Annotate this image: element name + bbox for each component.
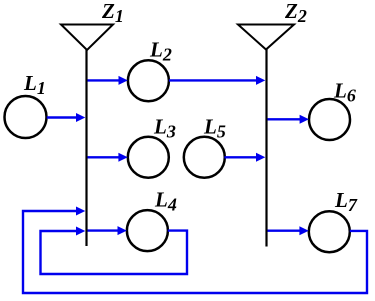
circle L4	[127, 210, 168, 251]
arrow L1 to bus Z1	[47, 113, 86, 122]
arrow L5 to bus Z2	[224, 153, 265, 162]
circle L3	[128, 137, 169, 178]
bus Z2 (vertical line)	[265, 49, 267, 247]
arrow bus Z1 to L4	[88, 226, 127, 235]
bus Z1 (vertical line)	[85, 49, 87, 246]
arrowhead of inner loop at bus Z1	[76, 227, 85, 236]
wire: inner feedback loop from L4 back to bus Z1	[41, 231, 188, 274]
circle L1	[5, 96, 47, 138]
arrow bus Z2 to L7	[268, 226, 309, 235]
wire: outer feedback loop from L7 back to bus Z1	[23, 211, 367, 293]
arrow bus Z2 to L6	[268, 115, 309, 124]
arrow bus Z1 to L2	[88, 76, 128, 85]
antenna/triangle Z1	[61, 25, 113, 51]
arrow bus Z1 to L3	[88, 153, 128, 162]
wire+arrow L2 to bus Z2	[169, 76, 265, 85]
arrowhead of outer loop at bus Z1	[76, 207, 85, 216]
circle L5	[184, 137, 225, 178]
circle L6	[309, 99, 350, 140]
circle L2	[128, 60, 169, 101]
antenna/triangle Z2	[238, 25, 294, 50]
circle L7	[309, 211, 350, 252]
